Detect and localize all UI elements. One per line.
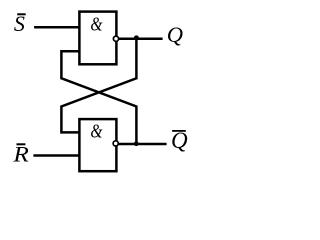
svg-text:Q: Q (167, 22, 183, 47)
svg-text:R: R (12, 143, 29, 167)
svg-text:&: & (90, 13, 102, 35)
svg-text:&: & (90, 120, 102, 142)
